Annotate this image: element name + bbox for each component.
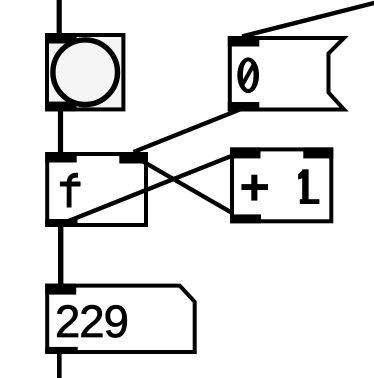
f glyph: crossbar xyxy=(60,182,81,187)
wire from msg 0 inlet up to top-right off canvas xyxy=(242,3,374,37)
bang object box xyxy=(47,35,123,109)
f glyph: stem and hook xyxy=(69,175,78,207)
229 outlet nub xyxy=(45,347,77,353)
f outlet nub xyxy=(45,219,77,227)
msg 0 outlet nub xyxy=(228,102,259,112)
+1 outlet nub xyxy=(230,214,261,223)
+1 left inlet nub xyxy=(230,147,261,158)
wire +1 outlet to f right inlet xyxy=(134,156,246,221)
wire 229 outlet to bottom edge xyxy=(57,351,62,378)
bang outlet nub xyxy=(45,102,77,112)
number atom box 229 xyxy=(47,286,195,352)
digit 1 stem xyxy=(302,169,308,204)
svg-text:229: 229 xyxy=(55,296,128,347)
wire f outlet to 229 inlet xyxy=(58,222,63,288)
wire from top edge into bang inlet xyxy=(57,0,62,38)
wire msg 0 outlet to f right inlet xyxy=(134,108,244,152)
digit 1 flag xyxy=(298,170,303,179)
bang inlet nub xyxy=(45,33,77,44)
f right inlet nub xyxy=(119,153,148,164)
f left inlet nub xyxy=(45,152,76,163)
229 inlet nub xyxy=(45,284,76,295)
digit 1 foot serif xyxy=(300,199,320,204)
message box 0 xyxy=(230,38,344,110)
bang circle xyxy=(53,40,118,105)
object box + 1 (drawn above wires) xyxy=(232,149,331,221)
plus glyph vertical bar xyxy=(251,175,257,201)
wire bang outlet to f left inlet xyxy=(58,106,63,158)
msg 0 glyph: slashed zero oval xyxy=(237,57,259,93)
msg 0 inlet nub xyxy=(228,36,259,47)
+1 right inlet nub xyxy=(303,147,333,158)
plus glyph horizontal bar xyxy=(241,184,268,190)
msg 0 glyph: slash of zero xyxy=(242,63,255,86)
wire f outlet to +1 left inlet xyxy=(61,151,245,225)
object box f xyxy=(47,154,146,225)
